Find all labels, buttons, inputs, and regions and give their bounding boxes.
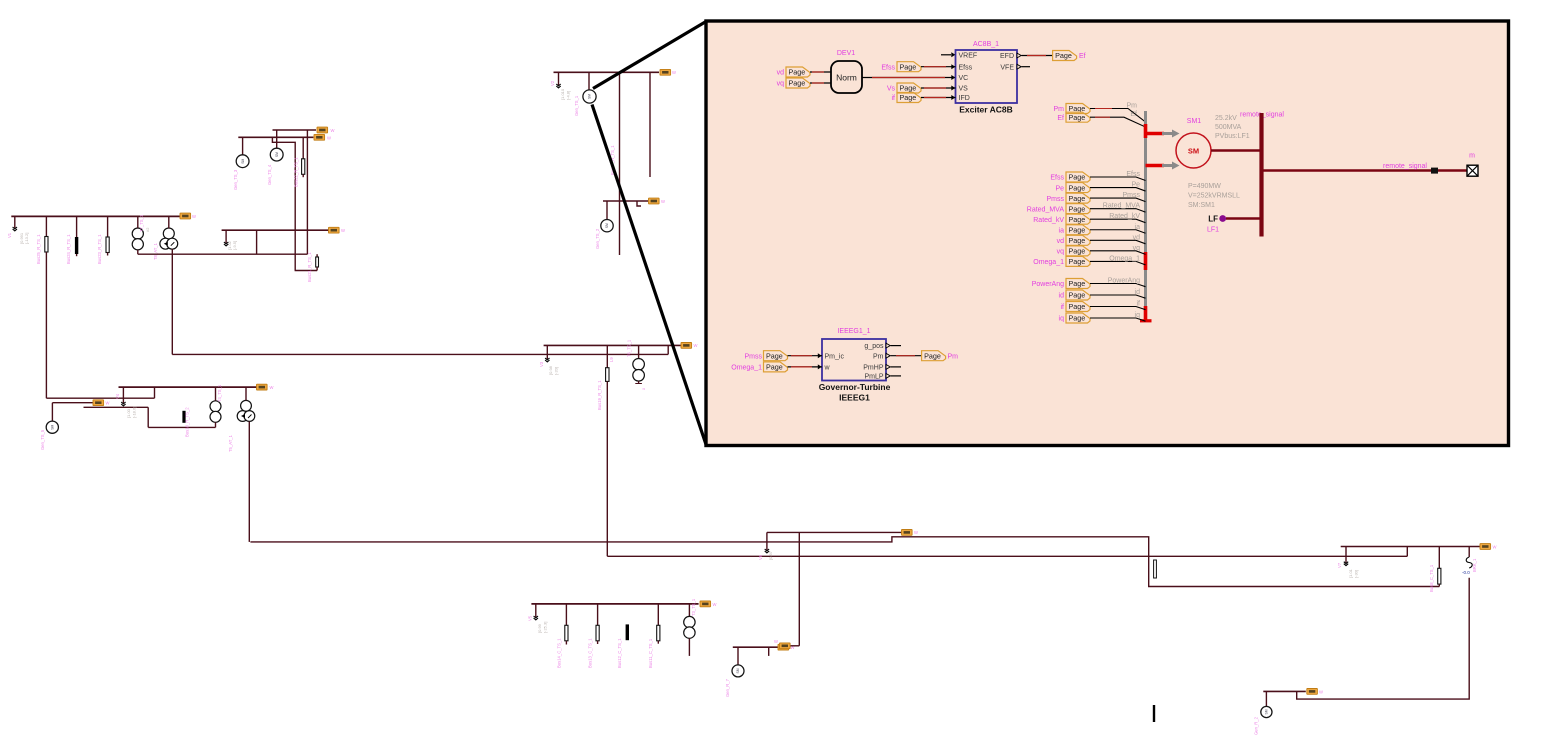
svg-text:Page: Page [1069, 225, 1086, 234]
svg-text:Rated_MVA: Rated_MVA [1027, 206, 1065, 213]
svg-text:V5: V5 [528, 615, 533, 621]
svg-text:Gen_TS_1: Gen_TS_1 [574, 95, 579, 116]
svg-text:Page: Page [1069, 215, 1086, 224]
svg-text:AC8B_1: AC8B_1 [973, 41, 999, 48]
svg-text:Page: Page [1069, 279, 1086, 288]
svg-text:Bus18_R_TS_2: Bus18_R_TS_2 [185, 407, 190, 437]
svg-text:Bus25_R_TS_1: Bus25_R_TS_1 [36, 234, 41, 264]
svg-text:V7: V7 [1337, 562, 1342, 568]
svg-text:Page: Page [766, 363, 783, 372]
svg-text:Bus12_C_TS_1: Bus12_C_TS_1 [617, 638, 622, 668]
svg-text:SM: SM [275, 152, 279, 157]
svg-text:W: W [713, 602, 717, 607]
svg-text:V6: V6 [758, 554, 763, 560]
svg-text:SM:SM1: SM:SM1 [1188, 202, 1215, 209]
svg-text:Page: Page [1069, 183, 1086, 192]
svg-text:[0.97: [0.97 [768, 550, 773, 560]
svg-text:Vs: Vs [887, 86, 896, 93]
svg-text:P=490MW: P=490MW [1188, 183, 1221, 190]
svg-text:Bus23_R_TS_1: Bus23_R_TS_1 [97, 234, 102, 264]
svg-text:Page: Page [1069, 257, 1086, 266]
svg-text:Efss: Efss [881, 64, 895, 71]
svg-text:PowerAng: PowerAng [1108, 278, 1140, 285]
svg-text:Norm: Norm [836, 73, 857, 83]
svg-text:Ef: Ef [1057, 115, 1064, 122]
svg-text:V=252kVRMSLL: V=252kVRMSLL [1188, 193, 1240, 200]
svg-text:W: W [270, 385, 274, 390]
svg-text:W: W [914, 530, 918, 535]
svg-text:W: W [192, 214, 196, 219]
svg-text:Page: Page [1069, 173, 1086, 182]
svg-text:Page: Page [789, 68, 806, 77]
svg-text:[-18.6]: [-18.6] [132, 407, 137, 418]
svg-text:PmLP: PmLP [864, 374, 883, 381]
svg-text:Gen_TS_4: Gen_TS_4 [267, 164, 272, 185]
svg-text:[-25.3]: [-25.3] [543, 622, 548, 633]
svg-text:Pmss: Pmss [1047, 196, 1065, 203]
svg-text:[-13.2]: [-13.2] [24, 233, 29, 244]
svg-text:Pmss: Pmss [1123, 192, 1141, 199]
svg-text:W: W [672, 70, 676, 75]
svg-text:[-20]: [-20] [554, 367, 559, 375]
svg-text:Rated_MVA: Rated_MVA [1103, 203, 1141, 210]
svg-text:SM: SM [1188, 147, 1199, 156]
svg-text:Page: Page [1069, 204, 1086, 213]
svg-text:Pe: Pe [1131, 182, 1140, 189]
svg-text:Pm: Pm [1054, 106, 1065, 113]
svg-text:vq: vq [1133, 245, 1141, 252]
svg-text:Pm: Pm [948, 353, 959, 360]
svg-text:Governor-Turbine: Governor-Turbine [819, 382, 891, 392]
svg-text:Bus13_C_TS_1: Bus13_C_TS_1 [588, 638, 593, 668]
svg-text:Page: Page [900, 62, 917, 71]
svg-text:SM: SM [1265, 709, 1269, 714]
svg-text:BRK_1: BRK_1 [1472, 558, 1477, 572]
svg-text:[1.010: [1.010 [560, 88, 565, 100]
svg-text:ia: ia [1135, 224, 1141, 231]
svg-text:Page: Page [1069, 194, 1086, 203]
svg-text:Page: Page [1069, 314, 1086, 323]
svg-text:[1.00: [1.00 [126, 408, 131, 418]
svg-text:Bus11_C_TS_1: Bus11_C_TS_1 [648, 638, 653, 668]
svg-text:PowerAng: PowerAng [1032, 281, 1064, 288]
svg-text:EFD: EFD [1000, 53, 1014, 60]
svg-text:Page: Page [900, 93, 917, 102]
svg-text:iq: iq [1135, 312, 1141, 319]
svg-text:Pm: Pm [873, 353, 884, 360]
svg-text:[-4.8]: [-4.8] [566, 91, 571, 100]
svg-text:PVbus:LF1: PVbus:LF1 [1215, 133, 1250, 140]
svg-text:remote_signal: remote_signal [1383, 163, 1427, 170]
svg-text:[-30]: [-30] [1354, 570, 1359, 578]
svg-text:V4: V4 [115, 393, 120, 399]
svg-text:25.2kV: 25.2kV [1215, 115, 1237, 122]
svg-text:ia: ia [1059, 227, 1065, 234]
svg-text:SM: SM [588, 94, 592, 99]
svg-text:m: m [1469, 153, 1475, 160]
svg-text:if: if [1137, 301, 1141, 308]
svg-text:T4_TS_1: T4_TS_1 [217, 384, 222, 402]
svg-text:Bus19_R_TS_1: Bus19_R_TS_1 [597, 380, 602, 410]
svg-text:Rated_kV: Rated_kV [1109, 213, 1140, 220]
svg-text:Page: Page [924, 351, 941, 360]
svg-text:W: W [661, 199, 665, 204]
svg-text:Page: Page [1069, 291, 1086, 300]
svg-text:T6_TS_1: T6_TS_1 [627, 339, 632, 357]
svg-text:Page: Page [900, 84, 917, 93]
svg-text:W: W [1319, 689, 1323, 694]
svg-text:iq: iq [1059, 316, 1065, 323]
svg-text:500MVA: 500MVA [1215, 124, 1242, 131]
svg-text:L9: L9 [609, 357, 614, 362]
svg-text:DEV1: DEV1 [837, 50, 855, 57]
svg-text:LF1: LF1 [1207, 227, 1219, 234]
svg-text:SM1: SM1 [1187, 118, 1202, 125]
svg-text:V2: V2 [550, 80, 555, 86]
svg-text:vd: vd [1057, 238, 1065, 245]
svg-text:Omega_1: Omega_1 [1109, 255, 1140, 262]
svg-text:Gen_TS_3: Gen_TS_3 [233, 169, 238, 190]
svg-text:V3: V3 [539, 361, 544, 367]
svg-text:vd: vd [1133, 234, 1141, 241]
svg-text:LF: LF [1208, 215, 1218, 224]
svg-text:T3_TS_1: T3_TS_1 [691, 598, 696, 616]
svg-text:VC: VC [959, 75, 969, 82]
svg-text:Bus8_C_TS_1: Bus8_C_TS_1 [1429, 564, 1434, 592]
svg-text:Pm_ic: Pm_ic [825, 353, 845, 360]
svg-text:[1.01: [1.01 [1348, 568, 1353, 578]
svg-text:if: if [1061, 304, 1065, 311]
svg-text:g_pos: g_pos [864, 343, 884, 350]
svg-text:Rated_kV: Rated_kV [1033, 217, 1064, 224]
svg-text:Gen_R_7: Gen_R_7 [725, 678, 730, 697]
svg-text:w: w [824, 365, 831, 372]
svg-text:Bus21_R_TS_1: Bus21_R_TS_1 [307, 252, 312, 282]
svg-text:Efss: Efss [1050, 175, 1064, 182]
svg-text:Omega_1: Omega_1 [731, 365, 762, 372]
svg-text:VS: VS [959, 86, 969, 93]
svg-text:Ef: Ef [1079, 53, 1086, 60]
svg-text:Page: Page [1069, 247, 1086, 256]
svg-text:W: W [774, 639, 778, 644]
svg-text:SM: SM [605, 223, 609, 228]
svg-text:W: W [1493, 545, 1497, 550]
svg-text:Efss: Efss [1126, 171, 1140, 178]
svg-text:Gen_TS_2: Gen_TS_2 [595, 228, 600, 249]
svg-text:Efss: Efss [959, 64, 973, 71]
svg-text:vq: vq [1057, 249, 1065, 256]
svg-text:Page: Page [766, 351, 783, 360]
svg-text:vq: vq [777, 81, 785, 88]
svg-text:Pmss: Pmss [745, 353, 763, 360]
svg-text:W: W [694, 343, 698, 348]
svg-text:PmHP: PmHP [863, 365, 884, 372]
svg-text:IEEEG1: IEEEG1 [839, 393, 870, 403]
svg-text:Bus24_R_TS_1: Bus24_R_TS_1 [66, 234, 71, 264]
svg-text:T7_TS_1: T7_TS_1 [139, 214, 144, 232]
svg-text:Page: Page [1069, 113, 1086, 122]
svg-text:T8_AT_1: T8_AT_1 [153, 242, 158, 260]
svg-text:SM: SM [736, 668, 740, 673]
svg-text:SM: SM [51, 424, 55, 429]
svg-text:[0.99: [0.99 [537, 623, 542, 633]
svg-text:W: W [327, 136, 331, 141]
svg-text:Gen_TS_5: Gen_TS_5 [40, 429, 45, 450]
svg-text:W: W [331, 128, 335, 133]
svg-text:SM: SM [241, 158, 245, 163]
svg-text:Bus14_C_TS_1: Bus14_C_TS_1 [557, 638, 562, 668]
svg-text:W: W [341, 228, 345, 233]
svg-text:W: W [106, 401, 110, 406]
svg-text:V1: V1 [7, 232, 12, 238]
svg-text:VFE: VFE [1000, 65, 1014, 72]
svg-text:VREF: VREF [959, 52, 978, 59]
svg-text:Page: Page [789, 79, 806, 88]
svg-text:Page: Page [1069, 302, 1086, 311]
svg-text:Omega_1: Omega_1 [1033, 259, 1064, 266]
svg-text:IFD: IFD [959, 95, 970, 102]
svg-text:T5_AT_1: T5_AT_1 [228, 434, 233, 452]
svg-text:id: id [1135, 289, 1141, 296]
svg-text:IEEEG1_1: IEEEG1_1 [837, 328, 870, 335]
svg-text:[0.98: [0.98 [548, 365, 553, 375]
svg-text:Pe: Pe [1055, 185, 1064, 192]
svg-text:[-9.5]: [-9.5] [232, 241, 237, 250]
svg-text:id: id [1059, 293, 1065, 300]
svg-text:Page: Page [1055, 51, 1072, 60]
svg-text:Bus22_R_TS_1: Bus22_R_TS_1 [294, 157, 299, 187]
svg-text:if: if [892, 95, 896, 102]
svg-text:vd: vd [777, 70, 785, 77]
svg-text:-0.0: -0.0 [1462, 570, 1470, 575]
svg-text:Exciter AC8B: Exciter AC8B [959, 105, 1013, 115]
svg-text:Page: Page [1069, 236, 1086, 245]
svg-text:Gen_R_2: Gen_R_2 [1254, 716, 1259, 735]
svg-text:#2: #2 [145, 227, 150, 232]
